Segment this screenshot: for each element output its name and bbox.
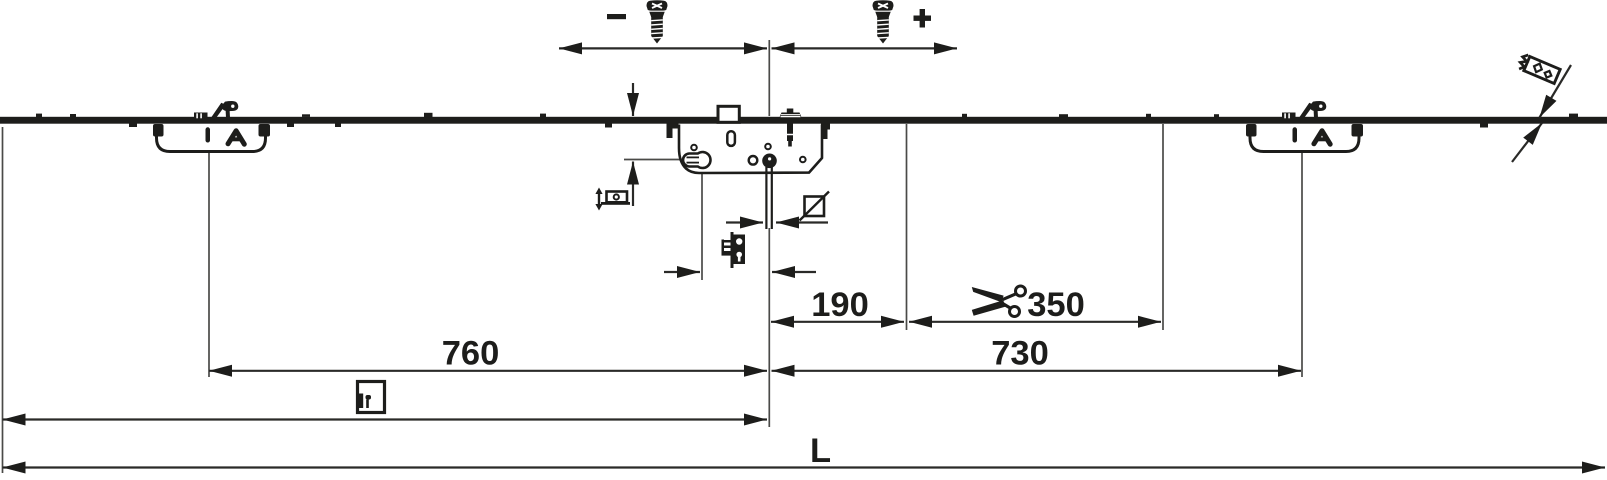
svg-text:190: 190 <box>811 286 869 324</box>
dimension 190 <box>771 321 904 323</box>
gearbox case <box>679 125 822 174</box>
hook left tab right <box>259 124 271 137</box>
svg-text:L: L <box>810 432 831 470</box>
dimension 730 <box>772 370 1302 372</box>
hook right tab left <box>1246 124 1257 137</box>
wire: left extension line x=2.5 <box>2 127 4 473</box>
gearbox hole C <box>749 156 758 165</box>
cut arrow upper <box>1540 65 1572 118</box>
wire: keyhole level reference line <box>624 159 686 161</box>
gearbox keyhole <box>683 152 711 168</box>
dimension square-spindle right arrow <box>776 221 828 223</box>
wire: left hook extension line x=209 <box>208 153 210 377</box>
gearbox left clip <box>667 124 679 139</box>
gearbox slot <box>727 131 735 146</box>
dimension 760 <box>209 370 767 372</box>
dimension minus-span top <box>559 47 767 49</box>
icon saw cut-to-length <box>1518 53 1561 84</box>
dimension PZ-distance right arrow <box>772 271 816 273</box>
svg-text:730: 730 <box>991 335 1049 373</box>
hook right tab right <box>1352 124 1364 137</box>
gearbox hole D <box>800 157 806 163</box>
hook left tab left <box>153 124 164 137</box>
hook cam left assembly <box>153 101 270 152</box>
wire: keyhole extension line x=702 <box>701 171 703 280</box>
screw left <box>647 0 668 43</box>
hook right A mark <box>1314 131 1330 144</box>
dimension L total length <box>3 466 1606 468</box>
hook left foot block <box>194 113 208 121</box>
plus sign <box>920 9 925 28</box>
gearbox spindle hub <box>762 154 777 169</box>
hook left body <box>157 125 266 152</box>
gearbox screw hole A <box>691 145 697 151</box>
wire: centre extension line below spindle x=769 <box>768 228 770 427</box>
minus sign <box>607 14 626 19</box>
hook left I mark <box>206 127 211 142</box>
gearbox clamp tab <box>787 109 794 114</box>
gearbox clamp plate on rail <box>779 113 802 119</box>
icon backset (roller on plate) <box>595 188 630 211</box>
hook left A mark <box>228 131 244 144</box>
hook left arm <box>210 103 226 120</box>
dimension handle-height <box>3 418 768 420</box>
wire: extension line x=1163 <box>1162 124 1164 330</box>
cut arrow lower <box>1512 123 1542 162</box>
screw right <box>873 0 894 43</box>
hook cam right assembly <box>1246 101 1363 152</box>
wire: right hook extension line x=1302 <box>1301 153 1303 377</box>
svg-text:350: 350 <box>1027 286 1085 324</box>
dimension PZ-distance left arrow <box>664 271 700 273</box>
gearbox screw hole B <box>765 144 771 150</box>
hook right body <box>1250 125 1359 152</box>
gearbox right clip <box>821 124 830 140</box>
icon PZ cylinder <box>722 232 746 268</box>
hook right I mark <box>1293 127 1298 142</box>
icon scissors <box>972 286 1026 317</box>
hook right foot block <box>1282 113 1296 121</box>
wire: extension line x=906 <box>906 124 908 330</box>
rail faceplate <box>0 117 1607 124</box>
dimension plus-span top <box>772 47 958 49</box>
dimension 350 <box>909 321 1161 323</box>
spindle bar <box>765 167 767 229</box>
hook right arm <box>1298 103 1314 120</box>
dimension square-spindle left arrow <box>726 221 763 223</box>
icon square spindle <box>800 192 830 221</box>
gearbox latch pin below rail <box>787 124 793 142</box>
svg-text:760: 760 <box>442 335 500 373</box>
gearbox cam on rail <box>718 106 739 122</box>
icon door handle <box>358 382 385 413</box>
rail tick marks <box>36 113 1578 128</box>
dimension backset upper arrow <box>632 83 634 116</box>
dimension backset lower arrow <box>632 162 634 207</box>
wire: centre line above rail x=769 <box>768 40 770 116</box>
